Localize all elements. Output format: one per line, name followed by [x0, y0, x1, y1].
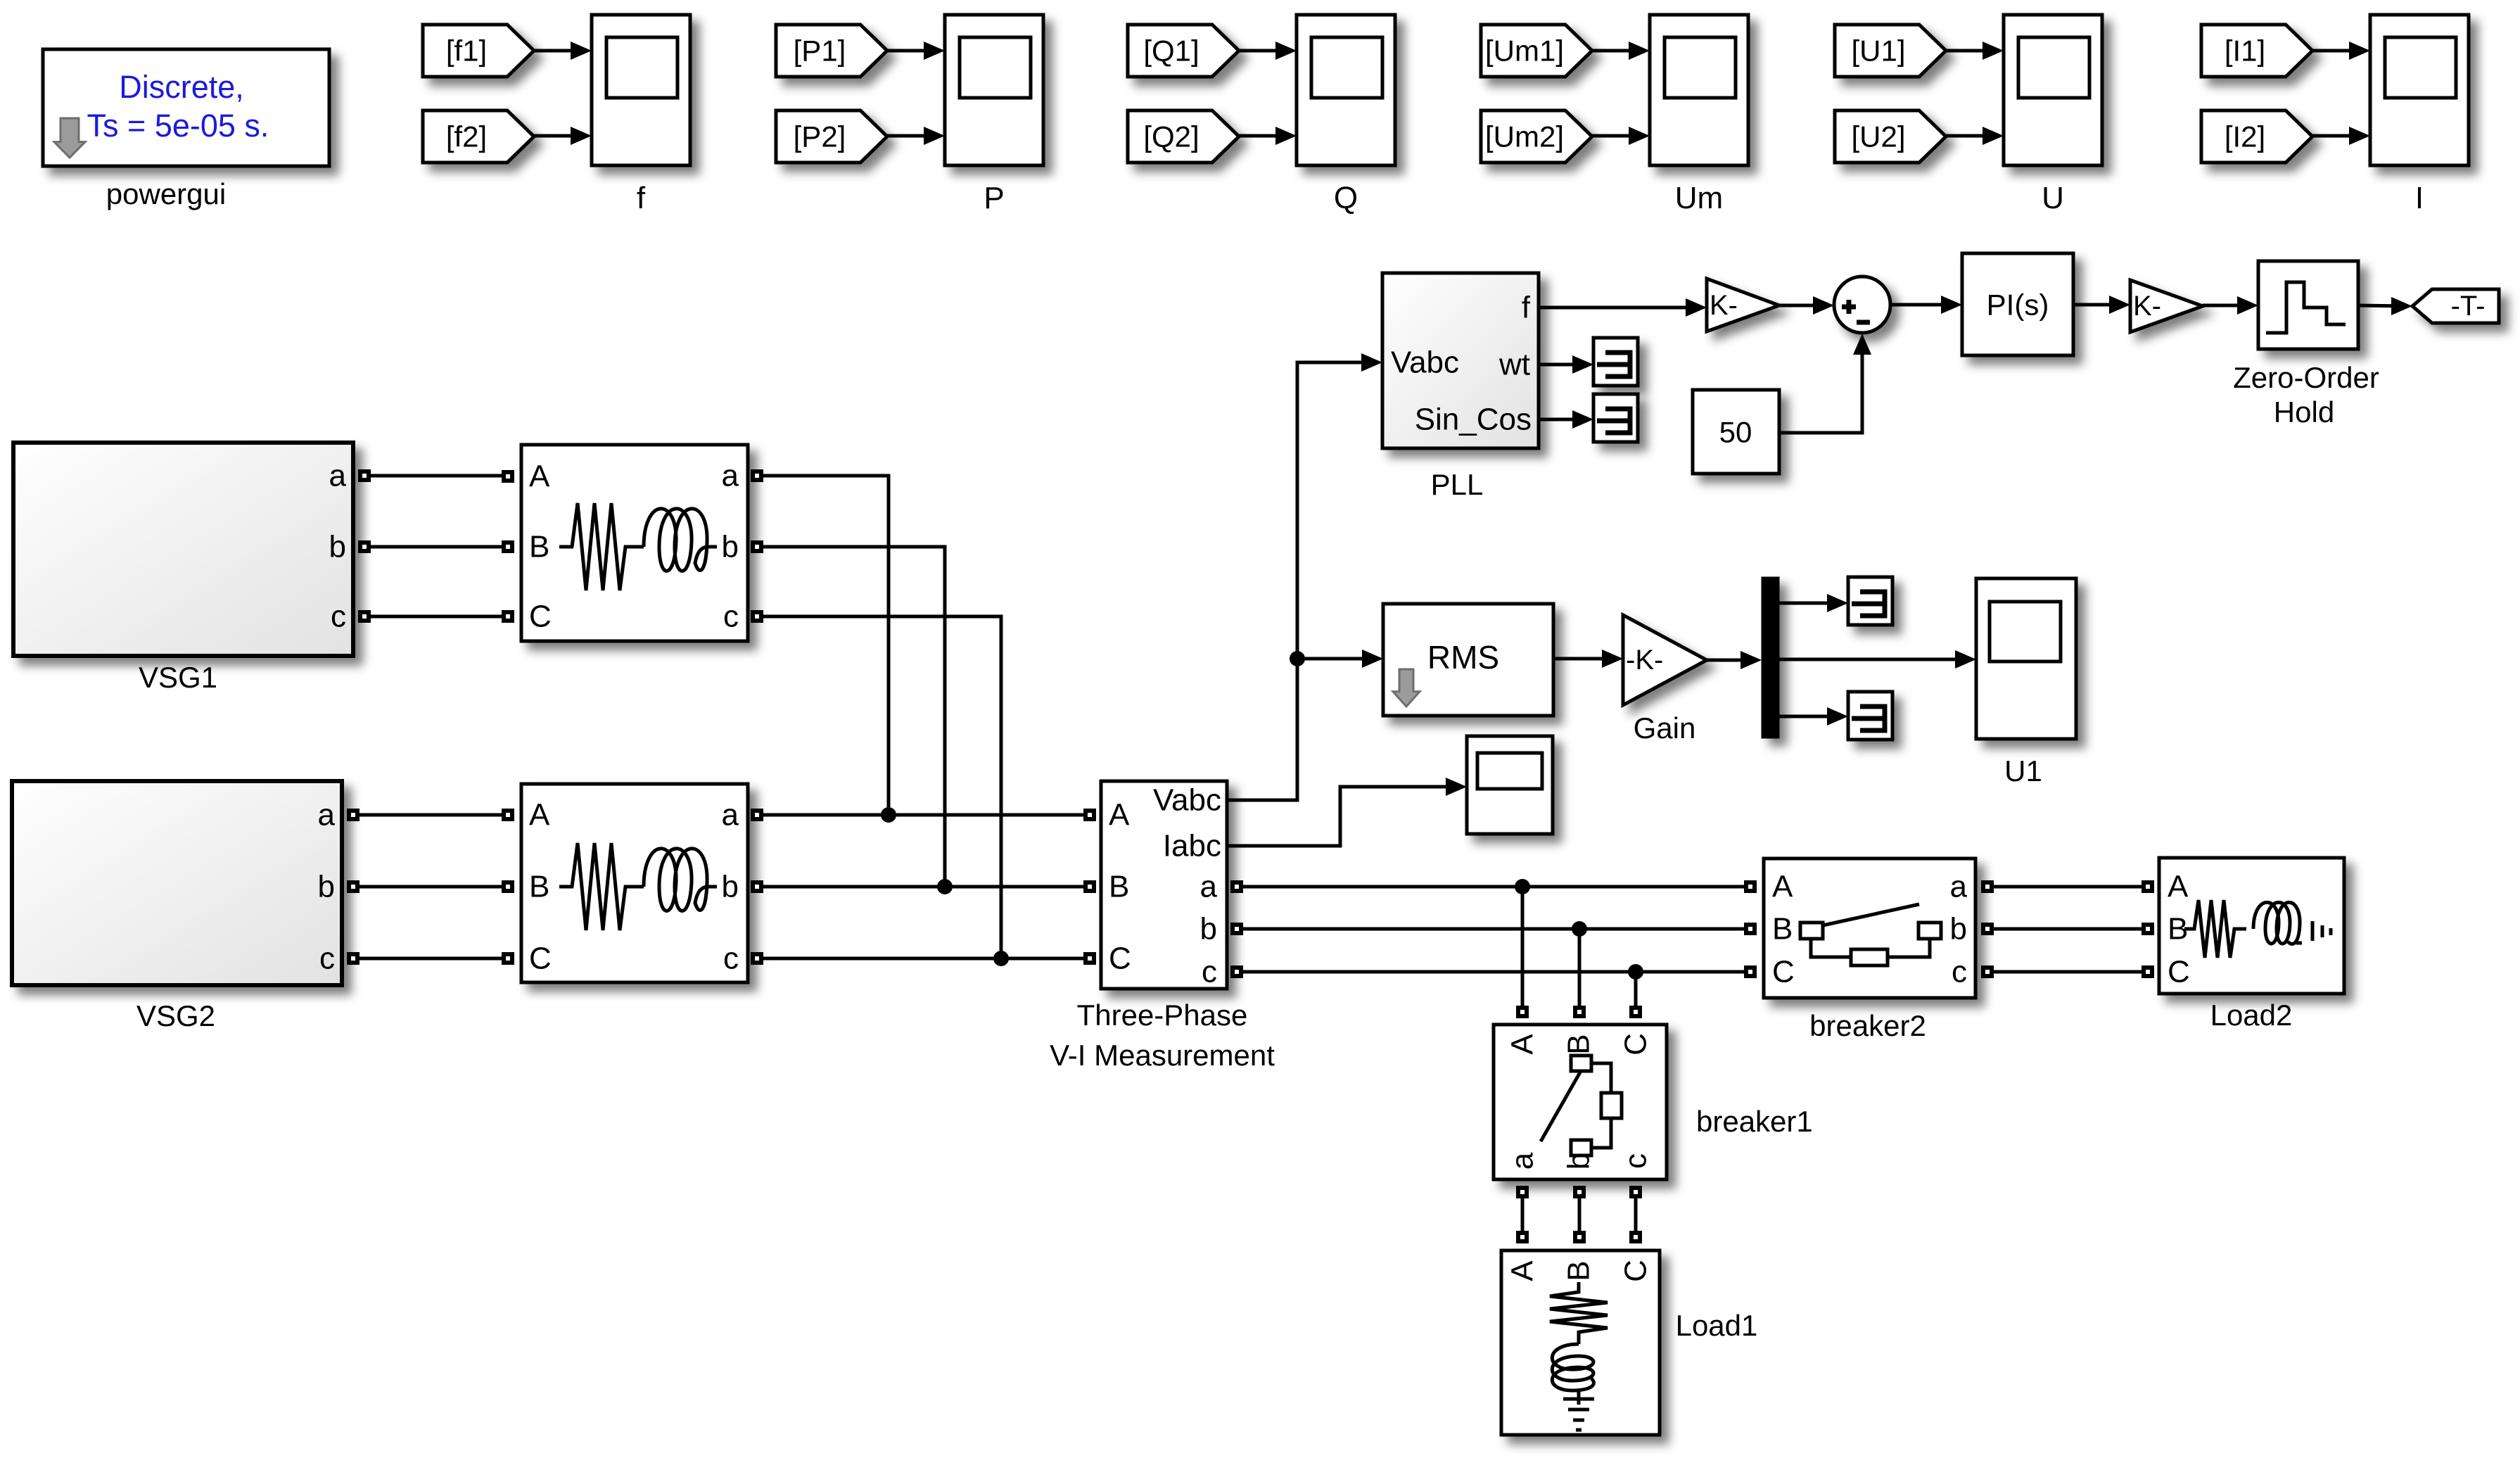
scope Q	[1297, 15, 1395, 165]
port VSG2 a	[347, 809, 359, 821]
svg-text:Ts = 5e-05 s.: Ts = 5e-05 s.	[87, 108, 269, 144]
terminator (Sin_Cos)	[1593, 394, 1638, 442]
svg-text:Three-Phase: Three-Phase	[1077, 999, 1248, 1032]
svg-text:breaker2: breaker2	[1809, 1009, 1926, 1042]
gain K- (Gain1)	[1707, 279, 1779, 331]
svg-text:A: A	[529, 798, 550, 832]
wire demux to terminator 1	[1779, 602, 1843, 605]
wire PLL f to Gain1	[1539, 306, 1701, 310]
wire VSG2 c to RLC2 C	[359, 957, 502, 961]
svg-text:U: U	[2042, 181, 2064, 215]
svg-text:powergui: powergui	[106, 177, 226, 210]
port breaker1 b	[1573, 1186, 1586, 1198]
From tag [I1]	[2201, 25, 2312, 77]
svg-text:b: b	[722, 530, 739, 564]
Load2 block	[2159, 858, 2344, 994]
svg-text:c: c	[1952, 955, 1967, 989]
svg-text:B: B	[1109, 870, 1129, 904]
wire [Q2] to scope Q	[1239, 134, 1291, 138]
svg-text:b: b	[722, 870, 739, 904]
wire Vabc tap to RMS	[1297, 657, 1377, 661]
wire RLC1 a down to node a	[763, 476, 889, 815]
svg-text:K-: K-	[1710, 290, 1738, 321]
wire breaker1 c to Load1 C	[1634, 1198, 1638, 1231]
port Load1 A	[1516, 1231, 1529, 1243]
port Load1 C	[1629, 1231, 1642, 1243]
svg-text:C: C	[529, 600, 552, 634]
port breaker1 C	[1629, 1006, 1642, 1018]
wire node c down to breaker1 C	[1634, 972, 1638, 1006]
svg-text:[U2]: [U2]	[1851, 120, 1905, 153]
port measurement c	[1230, 965, 1243, 978]
svg-text:B: B	[1772, 912, 1793, 946]
wire demux to terminator 2	[1779, 715, 1843, 718]
port VSG1 a	[358, 469, 371, 482]
port RLC1 A	[502, 470, 514, 483]
Load1 RLC icon	[1550, 1282, 1608, 1430]
port Load2 B	[2142, 923, 2154, 935]
terminator (demux out 1)	[1848, 577, 1892, 625]
svg-text:Um: Um	[1675, 181, 1723, 215]
svg-text:C: C	[1109, 942, 1131, 976]
wire VSG2 b to RLC2 B	[359, 885, 502, 889]
svg-text:50: 50	[1719, 416, 1752, 449]
port breaker2 C	[1744, 965, 1757, 978]
svg-text:C: C	[1619, 1260, 1653, 1282]
Load2 RLC icon	[2184, 900, 2331, 958]
port breaker1 c	[1629, 1186, 1642, 1198]
wire RLC1 b down to node b	[763, 547, 945, 887]
RMS block	[1383, 604, 1553, 716]
wire [P2] to scope P	[887, 134, 939, 138]
svg-text:U1: U1	[2004, 754, 2042, 787]
RLC branch icon (lower): resistor + inductor	[559, 843, 717, 930]
svg-text:B: B	[1562, 1034, 1596, 1054]
From tag [Q1]	[1128, 25, 1239, 77]
junction node b	[937, 879, 953, 894]
svg-text:a: a	[1950, 870, 1968, 904]
RMS icon arrow	[1393, 669, 1420, 707]
wire [I2] to scope I	[2312, 134, 2365, 138]
port RLC2 C	[502, 952, 514, 965]
svg-text:b: b	[1200, 912, 1217, 946]
terminator (demux out 2)	[1848, 692, 1892, 740]
svg-text:Vabc: Vabc	[1391, 346, 1459, 380]
port measurement b	[1230, 923, 1243, 935]
scope U	[2004, 15, 2102, 165]
scope f	[592, 15, 690, 165]
svg-text:[I1]: [I1]	[2225, 34, 2265, 68]
port breaker2 a	[1981, 880, 1994, 893]
demux bar	[1762, 577, 1779, 738]
breaker2 block	[1764, 859, 1975, 998]
svg-text:VSG1: VSG1	[139, 661, 217, 694]
svg-text:PLL: PLL	[1431, 468, 1484, 501]
port Load1 B	[1573, 1231, 1586, 1243]
wire node a down to breaker1 A	[1521, 887, 1525, 1006]
svg-text:c: c	[1202, 955, 1217, 989]
svg-text:[Um1]: [Um1]	[1485, 34, 1564, 68]
PI(s) transfer block	[1962, 253, 2073, 355]
port breaker2 A	[1744, 880, 1757, 893]
svg-text:b: b	[329, 530, 346, 564]
svg-text:c: c	[723, 600, 739, 634]
junction node a	[881, 807, 896, 823]
wire RLC2 a to measurement A	[763, 813, 1083, 817]
svg-text:Load1: Load1	[1676, 1309, 1758, 1342]
svg-text:[I2]: [I2]	[2225, 120, 2265, 153]
From tag [P1]	[776, 25, 887, 77]
wire Zero-Order Hold to Goto -T-	[2358, 305, 2407, 306]
svg-text:RMS: RMS	[1427, 639, 1499, 676]
port VSG2 c	[347, 952, 359, 965]
svg-text:Vabc: Vabc	[1153, 783, 1221, 818]
junction row b	[1572, 921, 1587, 937]
port breaker2 c	[1981, 965, 1994, 978]
wire VSG1 a to RLC1 A	[371, 474, 502, 478]
From tag [P2]	[776, 110, 887, 163]
Goto tag -T-	[2412, 289, 2499, 323]
port RLC1 a	[751, 469, 763, 482]
powergui icon arrow	[54, 118, 85, 158]
three-phase series RLC branch block (lower)	[521, 784, 748, 982]
port measurement a	[1230, 880, 1243, 893]
wire 50 to Sum	[1779, 339, 1862, 433]
breaker1 switch icon	[1541, 1056, 1622, 1155]
svg-text:Q: Q	[1334, 181, 1358, 215]
constant block 50	[1693, 390, 1779, 474]
svg-text:f: f	[1522, 291, 1531, 325]
svg-text:A: A	[1109, 798, 1130, 832]
port RLC2 b	[751, 880, 763, 893]
subsystem block VSG2	[12, 781, 342, 985]
port breaker1 a	[1516, 1186, 1529, 1198]
port VSG2 b	[347, 880, 359, 893]
wire breaker2 b to Load2 B	[1994, 927, 2142, 931]
svg-text:[P2]: [P2]	[794, 120, 846, 153]
svg-text:[P1]: [P1]	[794, 34, 846, 68]
three-phase series RLC branch block (upper)	[521, 445, 748, 641]
svg-text:[f2]: [f2]	[446, 120, 487, 153]
wire [I1] to scope I	[2312, 49, 2365, 53]
wire VSG2 a to RLC2 A	[359, 813, 502, 817]
port breaker2 b	[1981, 923, 1994, 935]
svg-text:PI(s): PI(s)	[1987, 289, 2049, 322]
port RLC2 c	[751, 952, 763, 965]
wire Sum to PI(s)	[1891, 303, 1956, 307]
port VSG1 c	[358, 610, 371, 623]
wire VSG1 b to RLC1 B	[371, 545, 502, 549]
svg-text:V-I Measurement: V-I Measurement	[1050, 1039, 1275, 1072]
From tag [U1]	[1835, 25, 1946, 77]
svg-text:VSG2: VSG2	[136, 999, 215, 1032]
scope (Iabc)	[1467, 736, 1553, 834]
wire [Um1] to scope Um	[1592, 49, 1644, 53]
Load1 block	[1501, 1250, 1660, 1435]
svg-text:-T-: -T-	[2451, 291, 2486, 322]
wire breaker2 a to Load2 A	[1994, 885, 2142, 889]
scope Um	[1650, 15, 1748, 165]
port RLC1 c	[751, 610, 763, 623]
port breaker1 A	[1516, 1006, 1529, 1018]
svg-text:a: a	[1506, 1152, 1540, 1170]
svg-text:C: C	[529, 942, 552, 976]
wire Gain1 to Sum	[1779, 304, 1828, 308]
svg-text:a: a	[722, 798, 739, 832]
port Load2 C	[2142, 965, 2154, 978]
wire Vabc up to PLL	[1227, 362, 1377, 800]
wire row a to breaker2 A	[1243, 885, 1744, 889]
wire [P1] to scope P	[887, 49, 939, 53]
svg-text:[Q2]: [Q2]	[1143, 120, 1199, 153]
wire RLC2 c to measurement C	[763, 957, 1083, 961]
port RLC2 a	[751, 809, 763, 821]
svg-text:B: B	[529, 870, 549, 904]
wire Gain2 to Zero-Order Hold	[2203, 304, 2253, 308]
port measurement B	[1083, 880, 1096, 893]
wire [f2] to scope f	[534, 134, 586, 138]
powergui block	[43, 49, 329, 166]
svg-text:breaker1: breaker1	[1696, 1105, 1813, 1138]
svg-text:Load2: Load2	[2210, 999, 2293, 1032]
svg-text:Iabc: Iabc	[1163, 829, 1221, 863]
svg-text:[U1]: [U1]	[1851, 34, 1905, 68]
svg-text:A: A	[2168, 870, 2189, 904]
svg-text:B: B	[1562, 1260, 1596, 1281]
junction row c	[1628, 964, 1643, 980]
svg-text:K-: K-	[2133, 291, 2161, 322]
svg-text:A: A	[1506, 1034, 1540, 1055]
junction Vabc tap to RMS	[1290, 651, 1305, 666]
wire RMS to Gain	[1553, 657, 1617, 661]
port measurement A	[1083, 809, 1096, 821]
svg-text:wt: wt	[1498, 348, 1530, 382]
port RLC2 A	[502, 809, 514, 821]
From tag [f2]	[423, 110, 534, 163]
svg-text:b: b	[1950, 912, 1967, 946]
Three-Phase V-I Measurement block	[1101, 781, 1227, 989]
svg-text:c: c	[331, 600, 346, 634]
port Load2 A	[2142, 880, 2154, 893]
svg-text:I: I	[2415, 181, 2424, 215]
svg-text:b: b	[318, 870, 335, 904]
svg-text:Discrete,: Discrete,	[119, 69, 244, 105]
port measurement C	[1083, 952, 1096, 965]
wire VSG1 c to RLC1 C	[371, 615, 502, 619]
PLL block	[1382, 273, 1539, 448]
wire RLC1 c down to node c	[763, 616, 1001, 958]
wire [U2] to scope U	[1946, 134, 1998, 138]
wire breaker1 b to Load1 B	[1578, 1198, 1582, 1231]
svg-text:c: c	[319, 942, 335, 976]
svg-text:a: a	[318, 798, 336, 832]
wire row c to breaker2 C	[1243, 970, 1744, 974]
svg-text:f: f	[637, 181, 646, 215]
port breaker1 B	[1573, 1006, 1586, 1018]
wire [f1] to scope f	[534, 49, 586, 53]
breaker1 block	[1494, 1025, 1667, 1179]
From tag [Um1]	[1481, 25, 1592, 77]
wire PI(s) to Gain2	[2073, 303, 2125, 307]
wire PLL wt to terminator	[1539, 363, 1588, 367]
wire demux to scope U1	[1779, 658, 1971, 661]
port RLC1 b	[751, 540, 763, 553]
From tag [f1]	[423, 25, 534, 77]
wire RLC2 b to measurement B	[763, 885, 1083, 889]
svg-text:a: a	[722, 459, 739, 493]
sum block	[1834, 277, 1890, 333]
breaker2 switch icon	[1800, 904, 1941, 965]
wire [Um2] to scope Um	[1592, 134, 1644, 138]
From tag [Um2]	[1481, 110, 1592, 163]
svg-text:Sin_Cos: Sin_Cos	[1415, 403, 1532, 437]
wire Iabc to scope	[1227, 787, 1461, 846]
svg-text:C: C	[2168, 955, 2190, 989]
wire row b to breaker2 B	[1243, 927, 1744, 931]
svg-text:a: a	[1200, 870, 1218, 904]
wire [U1] to scope U	[1946, 49, 1998, 53]
gain -K- (Gain)	[1623, 615, 1707, 705]
RLC branch icon (upper): resistor + inductor	[559, 503, 717, 590]
svg-text:-K-: -K-	[1626, 645, 1663, 676]
wire breaker2 c to Load2 C	[1994, 970, 2142, 974]
wire [Q1] to scope Q	[1239, 49, 1291, 53]
svg-text:c: c	[1619, 1153, 1653, 1169]
svg-text:a: a	[329, 459, 347, 493]
svg-text:[Um2]: [Um2]	[1485, 120, 1564, 153]
svg-text:C: C	[1619, 1033, 1653, 1056]
svg-text:Zero-Order: Zero-Order	[2233, 361, 2379, 394]
svg-text:[Q1]: [Q1]	[1143, 34, 1199, 68]
port VSG1 b	[358, 540, 371, 553]
svg-text:c: c	[723, 942, 739, 976]
Zero-Order Hold block	[2258, 261, 2358, 349]
svg-text:A: A	[529, 460, 550, 494]
svg-text:[f1]: [f1]	[446, 34, 487, 68]
scope I	[2370, 15, 2469, 165]
svg-text:B: B	[529, 530, 549, 564]
svg-text:A: A	[1772, 870, 1793, 904]
wire Gain to demux	[1707, 659, 1756, 662]
wire PLL Sin_Cos to terminator	[1539, 418, 1588, 422]
svg-text:P: P	[984, 181, 1004, 215]
svg-text:Hold: Hold	[2274, 395, 2334, 429]
port RLC2 B	[502, 880, 514, 893]
scope U1	[1976, 578, 2076, 739]
port RLC1 B	[502, 540, 514, 553]
wire breaker1 a to Load1 A	[1521, 1198, 1525, 1231]
svg-text:Gain: Gain	[1634, 711, 1696, 745]
From tag [U2]	[1835, 110, 1946, 163]
terminator (wt)	[1593, 338, 1638, 386]
svg-text:A: A	[1506, 1260, 1540, 1281]
subsystem block VSG1	[13, 443, 353, 656]
junction row a	[1515, 879, 1530, 894]
wire node b down to breaker1 B	[1578, 929, 1582, 1006]
port RLC1 C	[502, 610, 514, 623]
gain K- (Gain2)	[2130, 280, 2203, 332]
junction node c	[993, 951, 1009, 966]
scope P	[945, 15, 1043, 165]
From tag [I2]	[2201, 110, 2312, 163]
svg-text:C: C	[1772, 955, 1795, 989]
From tag [Q2]	[1128, 110, 1239, 163]
port breaker2 B	[1744, 923, 1757, 935]
